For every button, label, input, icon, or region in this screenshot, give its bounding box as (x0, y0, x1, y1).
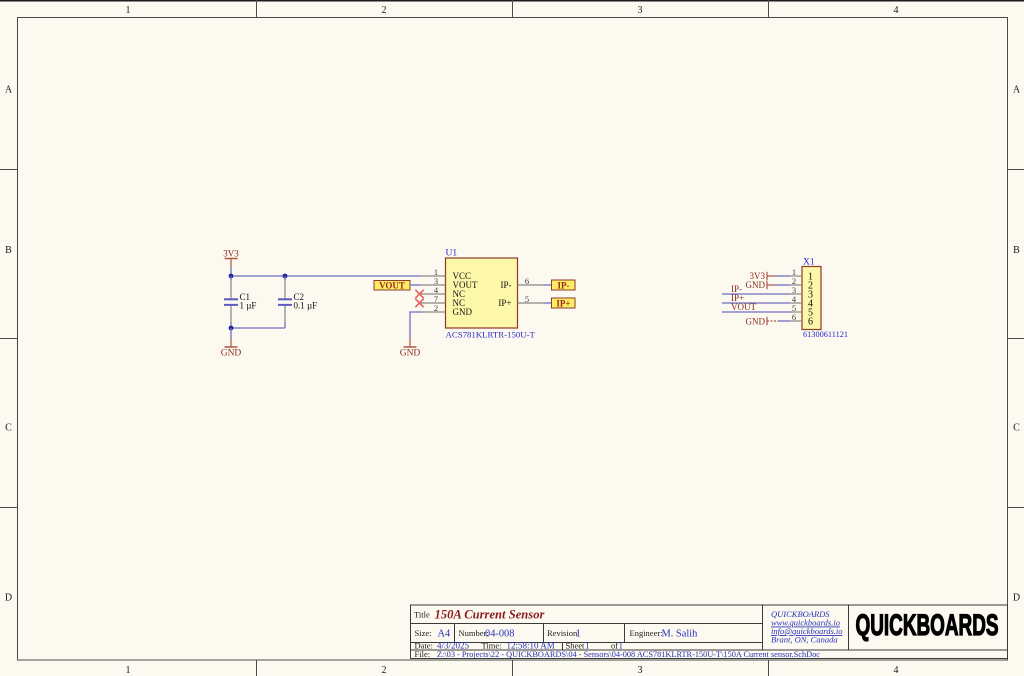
pin 1 VCC (421, 275, 446, 277)
svg-text:IP-: IP- (501, 280, 512, 290)
svg-text:3: 3 (638, 5, 643, 16)
svg-text:4: 4 (894, 5, 899, 16)
svg-text:File:: File: (415, 649, 431, 659)
pin 3 VOUT (421, 284, 446, 286)
wire U1 pin 6 to port IP- (544, 284, 552, 286)
pin 3 (790, 293, 802, 295)
svg-text:1 µF: 1 µF (240, 301, 257, 311)
junction at C2 top (283, 274, 288, 279)
wire VOUT port to U1 pin 3 (410, 284, 421, 286)
svg-text:2: 2 (382, 5, 387, 16)
pin 2 (790, 284, 802, 286)
svg-text:D: D (1013, 593, 1020, 604)
svg-text:5: 5 (525, 294, 529, 304)
svg-text:GND: GND (400, 349, 421, 359)
svg-text:IP+: IP+ (498, 298, 511, 308)
svg-text:1: 1 (576, 629, 581, 640)
svg-text:IP+: IP+ (556, 299, 570, 309)
power port 3V3 (223, 248, 239, 267)
title block (411, 605, 1008, 659)
wire 3V3 horizontal to U1 pin 1 (231, 275, 421, 277)
svg-text:GND: GND (746, 280, 766, 290)
svg-text:0.1 µF: 0.1 µF (294, 301, 318, 311)
port IP+ (552, 298, 576, 309)
pin 7 NC (421, 302, 446, 304)
svg-text:Z:\03 - Projects\22 - QUICKBOA: Z:\03 - Projects\22 - QUICKBOARDS\04 - S… (437, 650, 820, 659)
wire 3V3 vertical (230, 267, 232, 276)
svg-text:D: D (5, 593, 12, 604)
pin 1 (790, 275, 802, 277)
svg-text:U1: U1 (446, 249, 458, 259)
wire 3V3 to X1 pin 1 (776, 275, 791, 277)
connector X1 (790, 258, 848, 340)
svg-text:B: B (1013, 245, 1020, 256)
wire net IP- to X1 pin 3 (722, 293, 790, 295)
svg-text:A4: A4 (438, 629, 452, 640)
svg-text:4: 4 (894, 665, 899, 676)
pin 6 IP- (518, 284, 544, 286)
port IP- (552, 280, 576, 291)
svg-text:VOUT: VOUT (731, 302, 756, 312)
svg-text:B: B (5, 245, 12, 256)
wire net VOUT to X1 pin 5 (722, 311, 790, 313)
svg-text:GND: GND (746, 316, 766, 326)
svg-text:61300611121: 61300611121 (803, 330, 848, 339)
svg-text:M. Salih: M. Salih (662, 629, 699, 640)
ground GND left (221, 338, 242, 359)
wire GND to X1 pin 2 (776, 284, 791, 286)
svg-text:Size:: Size: (415, 628, 432, 638)
svg-text:C: C (1013, 423, 1020, 434)
svg-text:1: 1 (126, 665, 131, 676)
capacitor C1 (224, 276, 256, 328)
power port GND at X1 pin 6 (746, 316, 779, 326)
svg-text:2: 2 (382, 665, 387, 676)
pin 2 GND (421, 311, 446, 313)
svg-text:6: 6 (792, 312, 796, 322)
wire U1 pin 5 to port IP+ (544, 302, 552, 304)
op-amp U1 (sensor IC) (421, 249, 544, 340)
svg-text:IP-: IP- (558, 281, 570, 291)
power port 3V3 at X1 pin 1 (750, 271, 776, 281)
svg-text:2: 2 (434, 303, 438, 313)
svg-text:GND: GND (453, 307, 473, 317)
no-connect X on pin 7 (415, 299, 423, 307)
svg-text:3: 3 (638, 665, 643, 676)
wire GND to X1 pin 6 (778, 320, 790, 322)
svg-text:VOUT: VOUT (379, 281, 405, 291)
svg-text:6: 6 (808, 317, 813, 328)
svg-text:A: A (5, 85, 13, 96)
junction at C1 bottom (229, 326, 234, 331)
svg-text:6: 6 (525, 276, 529, 286)
pin 6 (790, 320, 802, 322)
junction at C1 top (229, 274, 234, 279)
wire net IP+ to X1 pin 4 (722, 302, 790, 304)
pin 4 NC (421, 293, 446, 295)
svg-text:Title: Title (414, 610, 430, 620)
pin 5 IP+ (518, 302, 544, 304)
svg-text:Brant, ON, Canada: Brant, ON, Canada (771, 635, 838, 645)
svg-text:C: C (5, 423, 12, 434)
no-connect X on pin 4 (415, 290, 423, 298)
power port GND at X1 pin 2 (746, 280, 776, 290)
pin 5 (790, 311, 802, 313)
capacitor C2 (278, 276, 317, 328)
pin 4 (790, 302, 802, 304)
svg-text:GND: GND (221, 349, 242, 359)
svg-text:04-008: 04-008 (485, 629, 514, 640)
wire to GND left (230, 328, 232, 338)
svg-text:QUICKBOARDS: QUICKBOARDS (856, 609, 999, 642)
svg-text:3V3: 3V3 (223, 248, 239, 258)
wire C2 bottom to C1 bottom (231, 327, 285, 329)
svg-text:ACS781KLRTR-150U-T: ACS781KLRTR-150U-T (446, 330, 536, 340)
wire U1 pin 2 to GND (410, 312, 421, 338)
svg-text:150A Current Sensor: 150A Current Sensor (435, 608, 545, 622)
svg-text:Engineer:: Engineer: (630, 628, 663, 638)
ground GND under U1 (400, 338, 421, 359)
port VOUT (374, 281, 410, 291)
svg-text:A: A (1013, 85, 1021, 96)
svg-text:1: 1 (126, 5, 131, 16)
